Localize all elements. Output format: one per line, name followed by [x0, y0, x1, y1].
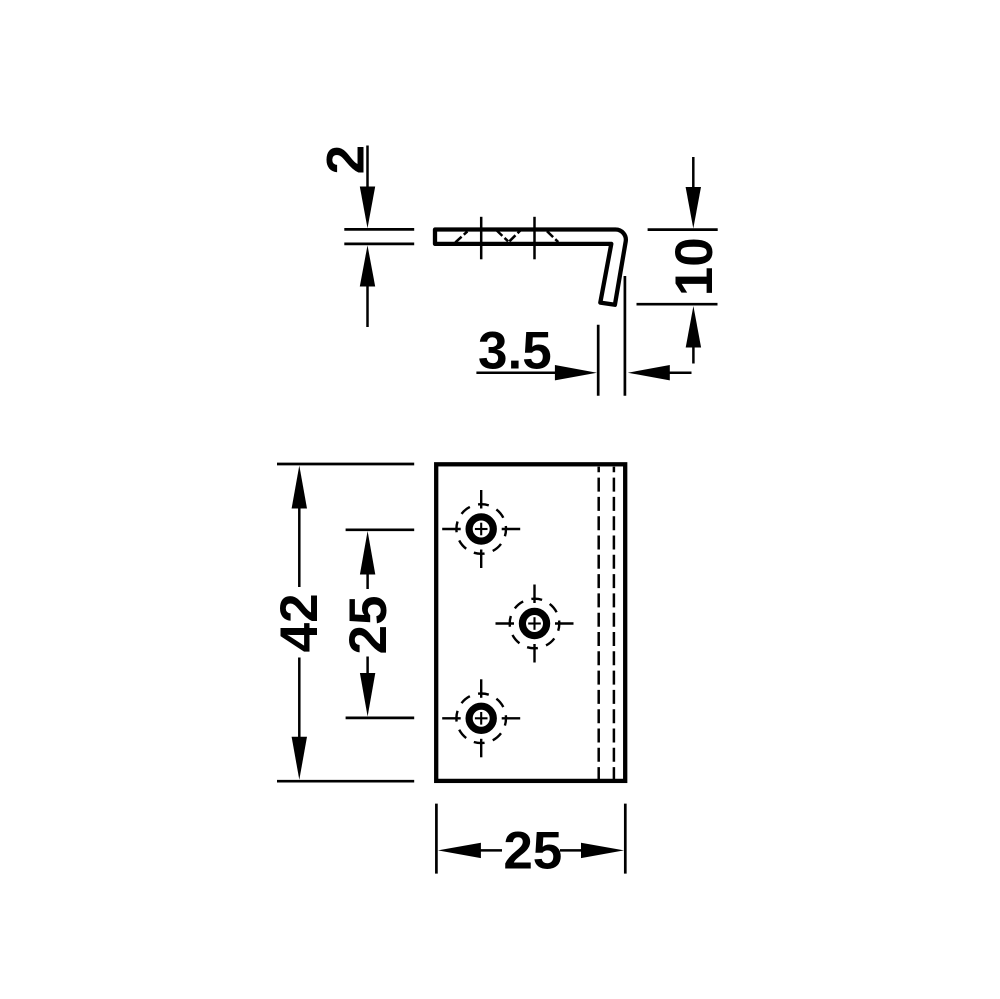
bend dashed line 2 [613, 467, 616, 779]
dim25v upper arrow [360, 531, 375, 575]
dim10 tick bottom [637, 303, 718, 306]
dim2 ext line top [344, 228, 414, 231]
dim2 ext line bottom [344, 243, 414, 246]
dim2 upper line [366, 146, 369, 189]
front view plate [436, 464, 625, 781]
dim3.5 right tail [667, 371, 692, 374]
dim25v lower arrow [360, 673, 375, 717]
svg-text:25: 25 [503, 821, 562, 880]
dim25h ext line right [624, 804, 627, 874]
dim10 upper arrow [686, 187, 701, 229]
hole centerline A (side view) [480, 217, 483, 259]
svg-text:25: 25 [339, 596, 398, 655]
dim25v ext line top [346, 528, 415, 531]
dim2 lower line [366, 284, 369, 327]
dim2 lower arrow [360, 245, 375, 286]
dim3.5 ext line right [624, 276, 627, 396]
dim42 ext line bottom [277, 780, 414, 783]
hidden dash 2 [496, 230, 508, 241]
hidden dash 3 [509, 230, 520, 241]
dim42 lower arrow [292, 737, 307, 780]
svg-text:3.5: 3.5 [478, 321, 552, 380]
svg-text:42: 42 [270, 593, 329, 652]
dim42 upper arrow [292, 466, 307, 509]
dim42 upper line [298, 507, 301, 588]
dim10 lower arrow [686, 306, 701, 348]
dim10 tick top [648, 228, 718, 231]
side view profile [435, 229, 626, 304]
dim25h left arrow [438, 843, 481, 858]
dim2 upper arrow [360, 187, 375, 229]
dim10 upper line [692, 157, 695, 189]
dim25h right arrow [581, 843, 624, 858]
bend dashed line 1 [597, 467, 600, 779]
hidden dash 4 [547, 231, 558, 242]
dim42 lower line [298, 658, 301, 739]
dim25h left tail [479, 849, 502, 852]
dim25v ext line bottom [346, 717, 415, 720]
dim25v upper line [366, 573, 369, 590]
dim3.5 left-pointing arrow [628, 365, 670, 380]
dim25h ext line left [435, 804, 438, 874]
hole centerline B (side view) [533, 217, 536, 259]
hole 1 [442, 490, 520, 568]
hidden dash 1 [455, 231, 467, 242]
dim25h right tail [560, 849, 583, 852]
hole 3 [442, 679, 520, 757]
dim3.5 left line [476, 371, 557, 374]
dim10 lower line [692, 346, 695, 364]
dim3.5 right-pointing arrow [555, 365, 597, 380]
dim42 ext line top [277, 463, 414, 466]
svg-text:10: 10 [665, 237, 724, 296]
dim3.5 ext line left [597, 325, 600, 396]
hole 2 [496, 585, 574, 663]
dim25v lower line [366, 657, 369, 676]
